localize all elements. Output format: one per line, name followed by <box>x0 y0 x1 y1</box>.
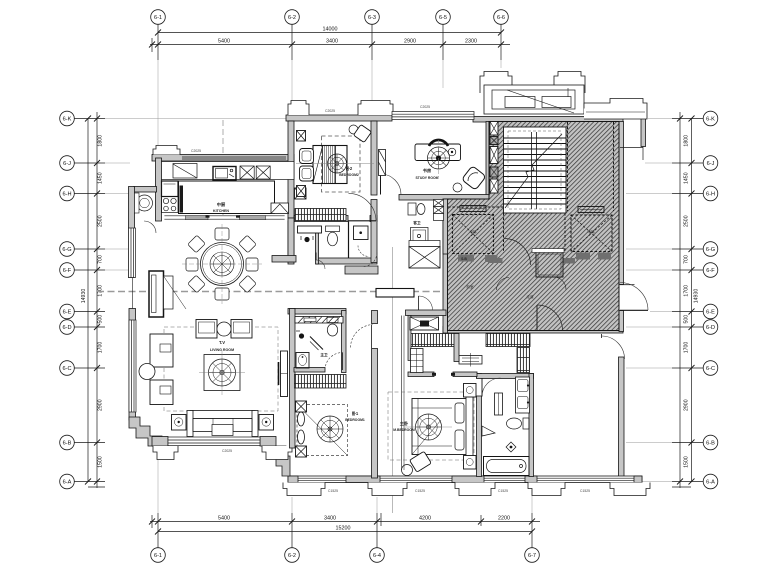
svg-text:2900: 2900 <box>684 399 690 411</box>
wall: living south chunks <box>152 437 168 447</box>
svg-text:中厨: 中厨 <box>217 201 226 208</box>
elevator 2 counterweight <box>578 207 604 213</box>
wall: master bath west <box>477 374 482 378</box>
study desk <box>415 144 461 161</box>
svg-text:6-B: 6-B <box>706 441 715 447</box>
right dimension column <box>672 112 703 488</box>
svg-text:1450: 1450 <box>684 172 690 184</box>
core small text blobs <box>466 229 595 299</box>
ceiling light square <box>204 355 240 391</box>
svg-text:C1525: C1525 <box>580 489 590 493</box>
shelf boxes east <box>434 200 444 207</box>
kitchen axis line <box>222 120 224 215</box>
door swings: vestibule south doors <box>497 278 510 291</box>
svg-text:6-K: 6-K <box>706 117 715 123</box>
door: bedroom1 <box>349 193 377 221</box>
wall: master bedroom north <box>408 372 434 377</box>
svg-text:电梯: 电梯 <box>587 229 595 234</box>
svg-text:1500: 1500 <box>98 456 104 468</box>
wall: bath2 east <box>342 311 347 373</box>
svg-text:6-H: 6-H <box>62 192 71 198</box>
svg-text:4200: 4200 <box>419 516 431 522</box>
svg-text:6-C: 6-C <box>62 366 71 372</box>
wc basin west <box>137 195 153 211</box>
door swing: east exit <box>620 283 648 311</box>
ceiling fan living <box>209 359 236 386</box>
blanket lines <box>412 407 452 409</box>
kitchen se corner cabinet <box>271 203 289 214</box>
corbel: south 3 <box>455 483 495 496</box>
window: kitchen north inside wall <box>182 156 286 158</box>
wall: guest bath east (duct wall) <box>443 199 448 254</box>
svg-text:STUDY ROOM: STUDY ROOM <box>416 176 439 180</box>
bottom dimension lines <box>150 513 540 548</box>
horizontal centre line <box>97 291 619 293</box>
machine room box 2 <box>542 97 571 108</box>
svg-text:C1525: C1525 <box>498 489 508 493</box>
wall chunks between windows <box>288 476 642 483</box>
toilet bath2 <box>327 318 338 323</box>
wall: bedroom block north <box>286 115 392 121</box>
svg-text:1450: 1450 <box>98 172 104 184</box>
svg-text:14930: 14930 <box>694 289 700 304</box>
desk lamp <box>448 148 456 156</box>
wall: west upper (wc + dining) <box>129 187 135 278</box>
thin extension lines into plan <box>105 60 672 513</box>
door: master bedroom <box>351 325 373 348</box>
partition bath1 <box>348 222 350 259</box>
vanity counter bath1 <box>298 226 322 233</box>
shaft strip of x-boxes <box>490 122 498 194</box>
wall: core bottom <box>443 327 623 334</box>
wall: bath2 south with door gap <box>294 368 325 373</box>
svg-text:500: 500 <box>684 315 690 324</box>
shower head <box>299 333 304 338</box>
vertical centre line hall <box>392 247 394 513</box>
top grid bubbles <box>151 10 509 25</box>
vanity counter <box>516 377 530 413</box>
wall: hatch left lower <box>443 199 448 333</box>
wardrobe: dressing vertical strip <box>517 348 530 373</box>
master bed <box>412 399 468 455</box>
toilet bath1 <box>326 226 340 232</box>
wall: bedroom1 east / corridor west upper <box>371 121 377 195</box>
wc small fixtures <box>408 203 416 215</box>
cabinet diagonal <box>173 164 197 179</box>
bookshelf strip west <box>379 150 386 176</box>
svg-text:BEDROOM1: BEDROOM1 <box>345 418 365 422</box>
hatch: stair/elevator core <box>448 122 620 331</box>
dressing island <box>459 356 482 365</box>
door: bath2 <box>325 353 343 371</box>
duct x-box 2 <box>410 317 439 330</box>
floor drain diamond <box>506 442 516 452</box>
svg-text:6-F: 6-F <box>63 268 72 274</box>
top tick marks <box>149 30 504 48</box>
svg-text:6-2: 6-2 <box>288 553 296 559</box>
svg-text:6-A: 6-A <box>63 480 72 486</box>
bedroom1 axis line <box>296 162 374 164</box>
svg-text:T.V: T.V <box>219 340 225 345</box>
door swing: lobby to vestibule <box>504 239 531 266</box>
svg-text:2900: 2900 <box>404 39 416 45</box>
svg-text:6-C: 6-C <box>706 366 715 372</box>
kitchen south opening lines <box>164 215 284 217</box>
waste bin <box>453 183 462 192</box>
glass screen hatched band <box>295 317 343 324</box>
wall: kitchen north <box>152 155 294 162</box>
wall: west lower (living) <box>129 309 136 421</box>
bedside table n <box>464 384 477 398</box>
door swing: empty room entry <box>602 334 625 359</box>
svg-text:14930: 14930 <box>81 289 87 304</box>
corbel: south 5 (balcony br) <box>610 483 650 496</box>
wall: bedroom1 south <box>294 216 348 222</box>
door: bath1 <box>363 253 377 267</box>
master ceiling dashes <box>388 392 474 460</box>
top dimension line segments <box>150 44 510 46</box>
parapet: core right castellation <box>554 72 585 94</box>
svg-text:书房: 书房 <box>423 167 431 174</box>
stair treads <box>504 138 567 204</box>
svg-text:6-J: 6-J <box>707 161 715 167</box>
svg-text:1800: 1800 <box>98 135 104 147</box>
machine band diagonal <box>507 90 574 113</box>
sink bath1 <box>354 226 369 240</box>
pillows master <box>455 403 464 423</box>
parapet: bedroom north bump 1 <box>288 101 309 116</box>
svg-text:C2025: C2025 <box>325 109 335 113</box>
svg-text:5400: 5400 <box>218 39 230 45</box>
svg-text:2900: 2900 <box>98 399 104 411</box>
left dimension column <box>75 112 106 488</box>
svg-text:6-7: 6-7 <box>528 553 536 559</box>
shaft dashed walls <box>448 122 614 253</box>
west console in niche <box>149 271 164 317</box>
wall: core top band base <box>473 117 623 123</box>
svg-text:C1525: C1525 <box>415 489 425 493</box>
lounge chair <box>462 166 487 191</box>
bed2 dashed square <box>297 405 348 456</box>
wall: master bath north <box>477 374 534 379</box>
svg-text:14000: 14000 <box>323 27 338 33</box>
top extension stubs <box>157 25 159 61</box>
stair break line <box>505 134 562 208</box>
tv cabinet east wall <box>281 351 288 397</box>
svg-text:6-B: 6-B <box>63 441 72 447</box>
vestibule mat square <box>536 252 563 277</box>
elevator 2 shaft <box>571 215 612 252</box>
stool <box>402 465 413 476</box>
armchair nw <box>196 320 217 339</box>
master north door jambs <box>432 373 436 376</box>
top dimension labels <box>218 27 477 45</box>
machine room box 1 <box>505 97 535 108</box>
svg-text:1700: 1700 <box>98 342 104 354</box>
svg-text:C1525: C1525 <box>328 489 338 493</box>
kitchen island <box>179 181 275 214</box>
step line under band <box>620 147 643 149</box>
chair back arch <box>429 140 448 146</box>
svg-text:2200: 2200 <box>498 516 510 522</box>
parapet: machine band outline <box>484 85 584 114</box>
wall: wc north <box>134 187 157 193</box>
bed1 frame <box>313 146 347 184</box>
svg-text:走道: 走道 <box>526 294 534 299</box>
door: wc west <box>144 221 156 233</box>
svg-text:C2025: C2025 <box>191 149 201 153</box>
entry hall south wall <box>406 310 447 316</box>
entry console <box>376 289 414 298</box>
svg-text:6-1: 6-1 <box>154 15 162 21</box>
suite corridor east line <box>401 316 403 471</box>
dining chairs (8) <box>186 228 258 300</box>
chaise <box>410 451 432 472</box>
svg-text:700: 700 <box>684 255 690 264</box>
stove column west <box>162 181 179 197</box>
wall: bedroom2 / master divider <box>372 311 378 324</box>
wardrobe: bedroom2 <box>295 375 347 389</box>
sofa <box>190 411 255 419</box>
duct x-box <box>409 247 440 269</box>
wall: bath1 south <box>316 258 377 264</box>
corbel: south 2 <box>368 483 407 496</box>
ceiling dashed border <box>164 327 278 411</box>
wall: bath1 inner partition <box>316 233 319 264</box>
sink bath2 <box>296 353 309 369</box>
svg-text:1500: 1500 <box>684 456 690 468</box>
svg-text:6-3: 6-3 <box>368 15 376 21</box>
dressing vertical wardrobe west <box>411 349 424 373</box>
wall: study right / core left <box>486 122 490 200</box>
lobby wall chunks <box>488 258 503 263</box>
svg-text:卧2: 卧2 <box>346 165 353 172</box>
burner boxes <box>240 166 254 179</box>
headboard <box>466 396 473 458</box>
dressing west wall <box>408 316 411 361</box>
svg-text:700: 700 <box>98 255 104 264</box>
west wall cabinets living <box>150 334 173 367</box>
armchair ne <box>231 320 252 339</box>
corbel: living south right <box>262 446 292 460</box>
top dimension line 14000 <box>158 32 501 34</box>
corbel: south 4 <box>528 483 565 496</box>
svg-text:3400: 3400 <box>324 516 336 522</box>
window tags below <box>191 105 590 493</box>
svg-text:S.B: S.B <box>461 257 467 261</box>
stair centre rails <box>531 132 533 209</box>
wardrobe: master dressing right <box>486 334 530 347</box>
wall: east lower (empty room) <box>619 357 625 477</box>
shower square <box>411 228 429 246</box>
wall: kitchen/bedroom divider <box>288 121 294 218</box>
svg-text:5400: 5400 <box>218 516 230 522</box>
svg-text:客卫: 客卫 <box>412 220 421 225</box>
wall: core/hatch right <box>619 122 624 285</box>
svg-text:6-6: 6-6 <box>497 15 505 21</box>
bathtub <box>484 457 530 476</box>
svg-text:6-D: 6-D <box>62 325 71 331</box>
sofa side table east <box>259 415 274 431</box>
svg-text:主卫: 主卫 <box>320 352 328 357</box>
elevator 1 shaft <box>453 215 494 254</box>
parapet: core left castellation <box>480 72 512 94</box>
door: study <box>381 174 402 195</box>
svg-text:2500: 2500 <box>684 215 690 227</box>
bottom grid bubbles <box>151 548 540 563</box>
table spokes <box>210 252 234 276</box>
svg-text:C2025: C2025 <box>420 105 430 109</box>
bed2 sheet line <box>297 405 348 456</box>
svg-text:6-G: 6-G <box>706 247 715 253</box>
svg-text:6-D: 6-D <box>706 325 715 331</box>
svg-text:6-F: 6-F <box>706 268 715 274</box>
pillows <box>298 412 305 426</box>
bedside table s <box>464 456 477 470</box>
wall: bath1 west <box>288 221 294 264</box>
door arc bath1 right <box>358 246 369 257</box>
wall: bath2 north / living east top <box>288 309 346 315</box>
svg-text:KITCHEN: KITCHEN <box>213 209 229 213</box>
wall: corridor west mid <box>371 200 377 263</box>
svg-text:6-1: 6-1 <box>154 553 162 559</box>
bed2 fan <box>317 416 343 442</box>
svg-text:卧1: 卧1 <box>352 410 359 417</box>
shoe shelf above duct <box>409 241 440 247</box>
right grid bubbles <box>703 111 718 489</box>
living se step corner <box>276 446 290 476</box>
svg-text:1700: 1700 <box>684 342 690 354</box>
bay opening edge line <box>132 278 134 309</box>
svg-text:LIVING ROOM: LIVING ROOM <box>210 348 234 352</box>
shower screen diagonal <box>310 337 323 350</box>
corbel: south 1 <box>283 483 325 496</box>
bed1 fan <box>328 154 347 173</box>
door arc entry-to-dressing <box>419 296 433 310</box>
stair dashed outline <box>508 131 561 209</box>
bed1 striped mattress <box>323 146 336 184</box>
door swing: corridor to south room <box>537 305 563 331</box>
elevator 2 door jambs <box>576 253 590 260</box>
svg-text:6-G: 6-G <box>62 247 71 253</box>
wall: dining se jog <box>272 256 296 263</box>
wall: living sw corner step <box>129 417 162 446</box>
svg-text:6-E: 6-E <box>63 310 72 316</box>
svg-text:15200: 15200 <box>336 526 351 532</box>
svg-text:6-E: 6-E <box>706 310 715 316</box>
wardrobe: bedroom1 <box>295 209 346 221</box>
svg-text:2500: 2500 <box>98 215 104 227</box>
svg-text:500: 500 <box>98 315 104 324</box>
kitchen north counter <box>162 162 295 180</box>
corner shelf <box>482 426 495 436</box>
svg-text:1800: 1800 <box>684 135 690 147</box>
stairwell white box <box>504 127 567 213</box>
wall: study south <box>399 195 489 201</box>
master fan <box>416 414 442 440</box>
office chair <box>428 147 450 169</box>
window: dining west <box>129 228 136 278</box>
svg-text:C2025: C2025 <box>222 449 232 453</box>
svg-text:2300: 2300 <box>465 39 477 45</box>
svg-text:前室: 前室 <box>466 284 474 289</box>
wardrobe: master dressing left <box>410 334 455 347</box>
window: living south <box>168 437 260 446</box>
svg-text:6-J: 6-J <box>63 161 71 167</box>
wall: kitchen west upper <box>156 158 162 221</box>
wall: living east <box>290 309 296 449</box>
bedside box top <box>296 401 307 412</box>
svg-text:主卧: 主卧 <box>400 420 409 427</box>
side boxes west <box>297 131 306 142</box>
toilet master <box>523 418 529 429</box>
svg-text:6-2: 6-2 <box>288 15 296 21</box>
dining table <box>201 243 244 286</box>
svg-text:6-H: 6-H <box>706 192 715 198</box>
sofa side table west <box>172 415 187 431</box>
window: study north band <box>392 112 474 120</box>
parapet: bedroom north bump 2 <box>358 101 393 116</box>
parapet: kitchen nw bump <box>153 146 180 155</box>
svg-text:1700: 1700 <box>98 285 104 297</box>
svg-text:M.BEDROOM: M.BEDROOM <box>393 428 415 432</box>
wall: master bath east <box>529 374 534 477</box>
svg-text:电梯: 电梯 <box>469 229 477 234</box>
south wall chunks <box>186 216 209 220</box>
wall: core right drop <box>641 113 646 147</box>
kitchen sink <box>213 167 236 181</box>
svg-text:6-5: 6-5 <box>439 15 447 21</box>
svg-text:3400: 3400 <box>326 39 338 45</box>
svg-text:6-4: 6-4 <box>373 553 381 559</box>
kitchen east x-box <box>295 188 307 199</box>
left grid bubbles <box>60 111 75 489</box>
elevator 1 door jambs <box>458 255 474 262</box>
bedside box bottom <box>296 446 307 457</box>
dining centre cross <box>221 224 223 304</box>
svg-text:6-A: 6-A <box>706 480 715 486</box>
lamp table between <box>217 322 231 336</box>
svg-text:BEDROOM2: BEDROOM2 <box>339 173 359 177</box>
corner chair ne <box>349 125 358 134</box>
door arc bath1 left <box>316 260 325 269</box>
parapet: right step band <box>584 99 647 120</box>
wall: dining east <box>288 218 294 262</box>
bed1 dashed outline <box>322 136 361 192</box>
svg-text:1700: 1700 <box>684 285 690 297</box>
door: master bath <box>482 378 501 397</box>
wall: south band bedroom2..empty room <box>288 476 642 483</box>
elevator 1 counterweight <box>460 206 486 212</box>
svg-text:6-K: 6-K <box>63 117 72 123</box>
window: living west <box>129 320 136 412</box>
bench <box>495 393 503 415</box>
chairs west bedroom1 <box>300 149 314 164</box>
corbel: living south left <box>153 446 178 460</box>
